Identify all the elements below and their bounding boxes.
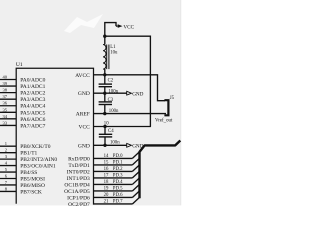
svg-text:33: 33 bbox=[3, 120, 8, 125]
wire VCC riser to power flag bbox=[105, 23, 116, 37]
wire pin 15 PD1 bbox=[94, 164, 133, 166]
svg-text:TxD/PD1: TxD/PD1 bbox=[68, 163, 90, 169]
schematic sheet background bbox=[0, 0, 180, 205]
svg-text:PB2/INT2/AIN0: PB2/INT2/AIN0 bbox=[20, 157, 57, 163]
wire pin 40 PA0 bbox=[0, 79, 16, 81]
svg-text:L1: L1 bbox=[110, 45, 116, 50]
svg-text:VCC: VCC bbox=[123, 24, 134, 30]
wire AVCC net to J5 pin 1 bbox=[105, 75, 165, 101]
svg-text:PA5/ADC5: PA5/ADC5 bbox=[20, 110, 45, 116]
capacitor C3 bbox=[99, 102, 112, 105]
svg-text:PD.4: PD.4 bbox=[113, 180, 123, 185]
svg-text:C3: C3 bbox=[108, 98, 114, 103]
svg-text:GND: GND bbox=[78, 143, 90, 149]
bus entry PD0 bbox=[132, 152, 139, 159]
svg-text:PB4/SS: PB4/SS bbox=[20, 170, 37, 176]
power flag VCC bbox=[116, 24, 123, 28]
svg-text:PA6/ADC6: PA6/ADC6 bbox=[20, 117, 45, 123]
svg-text:INT0/PD2: INT0/PD2 bbox=[67, 169, 90, 175]
svg-text:10u: 10u bbox=[110, 51, 118, 56]
bus PD[0..7] bbox=[140, 141, 181, 199]
bus entry PD2 bbox=[132, 165, 139, 172]
wire pin 21 PD7 bbox=[94, 203, 133, 205]
svg-text:GND: GND bbox=[78, 91, 90, 97]
wire pin 7 PB6 bbox=[0, 184, 16, 186]
wire VCC pin 10 row bbox=[94, 126, 151, 128]
svg-text:PD.6: PD.6 bbox=[113, 193, 123, 198]
wire pin 38 PA2 bbox=[0, 92, 16, 94]
bus entry PD7 bbox=[132, 197, 139, 204]
svg-text:2: 2 bbox=[5, 148, 7, 153]
connector J5 bracket bbox=[164, 100, 168, 115]
wire C4 bottom to GND junction bbox=[104, 137, 106, 145]
watermark (white swoosh logo) bbox=[64, 14, 103, 33]
svg-text:GND: GND bbox=[132, 91, 143, 97]
wire pin 17 PD3 bbox=[94, 177, 133, 179]
capacitor C4 bbox=[99, 134, 112, 137]
svg-text:AVCC: AVCC bbox=[75, 73, 90, 79]
svg-text:AREF: AREF bbox=[76, 112, 90, 118]
wire pin 16 PD2 bbox=[94, 170, 133, 172]
wire AVCC pin stub bbox=[94, 74, 105, 76]
wire pin 6 PB5 bbox=[0, 178, 16, 180]
wire pin 37 PA3 bbox=[0, 98, 16, 100]
wire pin 33 PA7 bbox=[0, 124, 16, 126]
wire inductor bottom to AVCC junction bbox=[104, 69, 106, 84]
wire pin 20 PD6 bbox=[94, 196, 133, 198]
svg-text:39: 39 bbox=[3, 81, 8, 86]
svg-text:20: 20 bbox=[104, 193, 109, 198]
svg-text:PA7/ADC7: PA7/ADC7 bbox=[20, 123, 45, 129]
svg-text:OC1B/PD4: OC1B/PD4 bbox=[64, 182, 90, 188]
wire pin 39 PA1 bbox=[0, 85, 16, 87]
sheet right boundary bbox=[179, 0, 182, 205]
junction (104.8,93.2) bbox=[103, 92, 106, 95]
wire GND pin 31 to GND flag bbox=[94, 92, 128, 94]
wire pin 35 PA5 bbox=[0, 111, 16, 113]
svg-text:INT1/PD3: INT1/PD3 bbox=[67, 176, 90, 182]
power flag GND (y=93.2) bbox=[127, 91, 132, 95]
svg-text:PA0/ADC0: PA0/ADC0 bbox=[20, 78, 45, 84]
svg-text:15: 15 bbox=[104, 160, 109, 165]
bus entry PD6 bbox=[132, 191, 139, 198]
wire pin 34 PA6 bbox=[0, 118, 16, 120]
bus entry PD1 bbox=[132, 158, 139, 165]
svg-text:36: 36 bbox=[3, 101, 8, 106]
svg-text:14: 14 bbox=[104, 154, 109, 159]
wire rail above inductor bbox=[104, 36, 106, 44]
svg-text:16: 16 bbox=[104, 167, 109, 172]
svg-text:PB6/MISO: PB6/MISO bbox=[20, 183, 45, 189]
svg-text:1: 1 bbox=[5, 141, 7, 146]
svg-text:Vref_out: Vref_out bbox=[155, 118, 173, 123]
svg-text:PB5/MOSI: PB5/MOSI bbox=[20, 177, 45, 183]
svg-text:PB3/OC0/AIN1: PB3/OC0/AIN1 bbox=[20, 164, 56, 170]
svg-text:OC2/PD7: OC2/PD7 bbox=[68, 202, 90, 208]
svg-text:RxD/PD0: RxD/PD0 bbox=[68, 156, 90, 162]
svg-text:PD.1: PD.1 bbox=[113, 160, 123, 165]
svg-text:35: 35 bbox=[3, 107, 8, 112]
svg-text:100n: 100n bbox=[108, 90, 118, 95]
capacitor C2 bbox=[99, 84, 112, 87]
wire pin 3 PB2 bbox=[0, 158, 16, 160]
wire pin 8 PB7 bbox=[0, 190, 16, 192]
svg-text:17: 17 bbox=[104, 173, 109, 178]
bus entry PD5 bbox=[132, 184, 139, 191]
svg-text:PD.3: PD.3 bbox=[113, 173, 123, 178]
junction (104.8,74.8) bbox=[103, 73, 106, 76]
svg-text:PD.5: PD.5 bbox=[113, 186, 123, 191]
svg-text:40: 40 bbox=[3, 75, 8, 80]
svg-text:PD.7: PD.7 bbox=[113, 199, 123, 204]
wire pin 36 PA4 bbox=[0, 105, 16, 107]
svg-text:19: 19 bbox=[104, 186, 109, 191]
svg-text:18: 18 bbox=[104, 180, 109, 185]
wire pin 2 PB1 bbox=[0, 152, 16, 154]
wire C3 bottom to AREF junction bbox=[104, 105, 106, 114]
wire pin 18 PD4 bbox=[94, 183, 133, 185]
bus entry PD4 bbox=[132, 178, 139, 185]
svg-text:PB0/XCK/T0: PB0/XCK/T0 bbox=[20, 144, 51, 150]
svg-text:J5: J5 bbox=[170, 96, 175, 101]
svg-text:PD.2: PD.2 bbox=[113, 167, 123, 172]
svg-text:VCC: VCC bbox=[78, 125, 90, 131]
svg-text:PD.0: PD.0 bbox=[113, 154, 123, 159]
svg-text:38: 38 bbox=[3, 88, 8, 93]
junction (104.8,36.2) bbox=[103, 35, 106, 38]
svg-text:PA4/ADC4: PA4/ADC4 bbox=[20, 104, 45, 110]
svg-text:PB1/T1: PB1/T1 bbox=[20, 151, 37, 157]
wire pin 4 PB3 bbox=[0, 165, 16, 167]
op IC U1 (ATmega) box outline bbox=[16, 68, 93, 204]
svg-text:PA1/ADC1: PA1/ADC1 bbox=[20, 84, 45, 90]
wire pin 1 PB0 bbox=[0, 145, 16, 147]
junction (105.0,126.5) bbox=[103, 125, 106, 128]
svg-text:100n: 100n bbox=[109, 109, 119, 114]
wire VCC top rail across and down right side bbox=[105, 36, 151, 126]
svg-text:34: 34 bbox=[3, 114, 8, 119]
junction (104.8,113.6) bbox=[103, 112, 106, 115]
wire AREF net to J5 pin 2 bbox=[94, 113, 167, 115]
wire pin 5 PB4 bbox=[0, 171, 16, 173]
svg-text:C4: C4 bbox=[108, 129, 114, 134]
svg-text:100n: 100n bbox=[110, 140, 120, 145]
svg-text:PA2/ADC2: PA2/ADC2 bbox=[20, 91, 45, 97]
svg-text:OC1A/PD5: OC1A/PD5 bbox=[64, 189, 90, 195]
svg-text:U1: U1 bbox=[16, 62, 23, 68]
inductor L1 coil bbox=[103, 45, 106, 70]
svg-text:ICP1/PD6: ICP1/PD6 bbox=[67, 195, 90, 201]
wire pin 14 PD0 bbox=[94, 157, 133, 159]
wire C2 bottom through GND junction to C3 top bbox=[104, 87, 106, 102]
svg-text:37: 37 bbox=[3, 94, 8, 99]
wire pin 19 PD5 bbox=[94, 190, 133, 192]
svg-text:PB7/SCK: PB7/SCK bbox=[20, 189, 42, 195]
svg-text:C2: C2 bbox=[108, 79, 114, 84]
inductor L1 core bars bbox=[107, 45, 109, 70]
wire GND pin 11 to GND flag bbox=[94, 144, 128, 146]
junction (105.0,145.3) bbox=[103, 144, 106, 147]
svg-text:21: 21 bbox=[104, 199, 109, 204]
power flag GND (y=145.3) bbox=[127, 143, 132, 147]
bus entry PD3 bbox=[132, 171, 139, 178]
wire VCC junction to C4 top bbox=[104, 127, 106, 135]
svg-text:PA3/ADC3: PA3/ADC3 bbox=[20, 97, 45, 103]
